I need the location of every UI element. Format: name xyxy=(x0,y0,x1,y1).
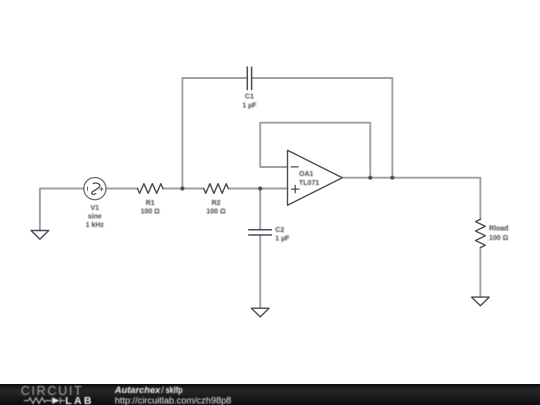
svg-text:/: / xyxy=(161,385,164,395)
svg-text:Rload: Rload xyxy=(489,225,508,232)
svg-text:C2: C2 xyxy=(275,227,284,234)
svg-text:100 Ω: 100 Ω xyxy=(489,235,509,242)
svg-text:sklfp: sklfp xyxy=(166,385,183,395)
svg-text:Autarchex: Autarchex xyxy=(114,385,162,395)
svg-text:C1: C1 xyxy=(245,94,254,101)
svg-text:V1: V1 xyxy=(91,205,100,212)
svg-text:TL071: TL071 xyxy=(299,180,319,187)
svg-text:100 Ω: 100 Ω xyxy=(206,209,226,216)
svg-text:sine: sine xyxy=(88,214,102,221)
svg-text:LAB: LAB xyxy=(65,395,93,405)
svg-text:R2: R2 xyxy=(212,200,221,207)
svg-text:http://circuitlab.com/czh98p8: http://circuitlab.com/czh98p8 xyxy=(115,396,231,405)
svg-text:1 µF: 1 µF xyxy=(242,102,257,109)
svg-text:OA1: OA1 xyxy=(299,171,314,178)
svg-text:100 Ω: 100 Ω xyxy=(141,209,161,216)
svg-text:1 µF: 1 µF xyxy=(275,236,290,243)
svg-text:1 kHz: 1 kHz xyxy=(86,222,105,229)
svg-text:R1: R1 xyxy=(146,200,155,207)
